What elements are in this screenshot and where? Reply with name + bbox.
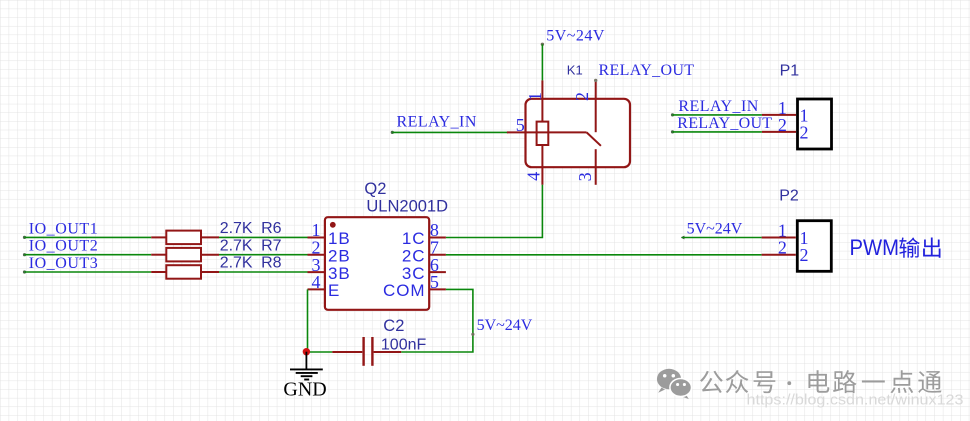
svg-text:K1: K1 (567, 63, 583, 78)
svg-text:RELAY_OUT: RELAY_OUT (599, 62, 695, 79)
svg-text:Q2: Q2 (364, 180, 386, 198)
svg-text:5: 5 (516, 115, 525, 135)
connector P2 (762, 188, 832, 272)
resistor R8 (151, 255, 281, 279)
svg-text:P1: P1 (780, 63, 800, 80)
svg-text:3B: 3B (328, 264, 351, 283)
P1 pin 1 stub (762, 114, 796, 116)
wire 5V~24V to P2.1 (682, 237, 762, 239)
pin 2 (595, 80, 597, 132)
svg-text:2: 2 (572, 92, 592, 101)
svg-text:3C: 3C (402, 264, 426, 283)
watermark wechat logo (657, 369, 692, 399)
wire IO_OUT1 (23, 236, 151, 239)
wire RELAY_IN to P1.1 (671, 113, 762, 116)
pin 6 stub (429, 271, 446, 273)
svg-text:2: 2 (778, 115, 787, 135)
svg-text:RELAY_OUT: RELAY_OUT (677, 115, 772, 132)
capacitor C2 (332, 317, 426, 366)
svg-text:R8: R8 (261, 255, 282, 272)
svg-text:2.7K: 2.7K (220, 237, 253, 254)
svg-text:RELAY_IN: RELAY_IN (678, 98, 758, 115)
pin 5 stub (COM) (429, 288, 446, 290)
pin 2 stub (308, 254, 325, 256)
svg-text:1: 1 (525, 92, 545, 101)
svg-text:E: E (328, 281, 340, 300)
pin 8 stub (429, 237, 446, 239)
power port 5V~24V (top) (541, 28, 605, 46)
svg-text:ULN2001D: ULN2001D (366, 198, 448, 216)
wire RELAY_OUT to P1.2 (671, 130, 762, 133)
resistor R6 (151, 220, 281, 244)
power port 5V~24V (P2) (681, 221, 743, 240)
wire R8 to IC (219, 271, 308, 273)
watermark text 公众号·电路一点通 (700, 371, 723, 393)
svg-text:2B: 2B (328, 247, 351, 266)
wire RELAY_IN to relay pin5 (391, 131, 508, 134)
svg-text:2C: 2C (402, 247, 426, 266)
pin 4 stub (E) (308, 288, 325, 290)
svg-text:100nF: 100nF (381, 336, 427, 353)
wire 2C (pin7) to P2 (446, 254, 762, 256)
svg-text:3: 3 (575, 172, 595, 181)
svg-text:R7: R7 (261, 237, 282, 254)
P2 pin 1 stub (762, 237, 796, 239)
ground GND (283, 352, 326, 401)
wire R7 to IC (219, 254, 308, 256)
pin 3 (595, 149, 597, 185)
svg-text:R6: R6 (261, 220, 282, 237)
svg-text:C2: C2 (383, 317, 404, 335)
power port 5V~24V (bottom) (471, 317, 533, 336)
svg-text:4: 4 (524, 172, 544, 181)
coil (537, 122, 549, 145)
wire power to relay pin1 (541, 44, 543, 80)
svg-text:5V~24V: 5V~24V (477, 317, 533, 334)
IC Q2 ULN2001D (308, 180, 449, 310)
common line pin 5 (507, 131, 587, 133)
connector P1 (762, 63, 832, 149)
wire junction to C2 (306, 351, 332, 353)
wire IO_OUT2 (23, 253, 151, 256)
svg-text:RELAY_IN: RELAY_IN (397, 114, 477, 131)
pin 3 stub (308, 271, 325, 273)
svg-text:2.7K: 2.7K (220, 255, 253, 272)
junction (303, 348, 310, 355)
resistor R7 (151, 237, 281, 261)
svg-text:1C: 1C (402, 229, 426, 248)
svg-text:2: 2 (800, 122, 809, 142)
svg-text:https://blog.csdn.net/winux123: https://blog.csdn.net/winux123 (747, 393, 964, 409)
svg-text:IO_OUT2: IO_OUT2 (29, 238, 99, 255)
pin 7 stub (429, 254, 446, 256)
wire E down to junction (307, 289, 309, 352)
switch blade (587, 132, 601, 145)
wire relay pin4 to 5V~24V rail (446, 185, 543, 238)
svg-text:IO_OUT3: IO_OUT3 (29, 255, 99, 272)
svg-text:1B: 1B (328, 229, 351, 248)
wire COM down to C2 (401, 289, 473, 352)
coil lead pin 4 (541, 145, 543, 185)
relay K1 (507, 62, 695, 185)
svg-text:COM: COM (383, 281, 425, 300)
svg-text:2.7K: 2.7K (220, 220, 253, 237)
svg-text:PWM: PWM (850, 235, 900, 260)
svg-text:P2: P2 (779, 188, 799, 205)
svg-text:GND: GND (283, 378, 326, 400)
svg-text:5V~24V: 5V~24V (546, 28, 605, 45)
svg-text:2: 2 (778, 238, 787, 258)
svg-text:2: 2 (800, 245, 809, 265)
wire R6 to IC (219, 236, 308, 238)
svg-text:IO_OUT1: IO_OUT1 (29, 220, 99, 237)
pin 1 stub (308, 237, 325, 239)
coil lead pin 1 (541, 80, 543, 122)
svg-text:4: 4 (312, 272, 321, 292)
svg-text:5: 5 (430, 272, 439, 292)
svg-text:5V~24V: 5V~24V (687, 221, 743, 238)
P1 pin 2 stub (762, 131, 796, 133)
wire IO_OUT3 (23, 270, 151, 273)
P2 pin 2 stub (762, 254, 796, 256)
